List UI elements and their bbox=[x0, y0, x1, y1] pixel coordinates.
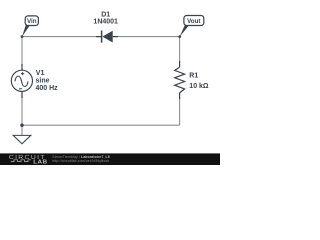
label V1 bbox=[36, 70, 45, 77]
svg-text:http://circuitlab.com/ce4945lq: http://circuitlab.com/ce4945lqfbcck bbox=[52, 159, 109, 163]
svg-text:Vin: Vin bbox=[27, 18, 37, 25]
resistor R1 bbox=[175, 61, 185, 99]
wire right vertical lower bbox=[179, 97, 181, 125]
ground bbox=[13, 135, 31, 143]
junction dot bbox=[20, 124, 23, 127]
diode D1 bbox=[96, 31, 118, 43]
wire bottom horizontal bbox=[22, 124, 180, 126]
value sine bbox=[36, 78, 50, 85]
wire right vertical upper bbox=[179, 37, 181, 63]
voltage source V1 bbox=[11, 64, 32, 98]
wire left vertical lower bbox=[21, 96, 23, 125]
svg-text:R1: R1 bbox=[189, 73, 198, 80]
value 400 Hz bbox=[36, 85, 59, 92]
svg-text:sine: sine bbox=[36, 78, 50, 85]
footer text line 2 bbox=[52, 159, 109, 163]
svg-text:1N4001: 1N4001 bbox=[93, 18, 118, 25]
value 1N4001 bbox=[93, 18, 118, 25]
svg-text:V1: V1 bbox=[36, 70, 45, 77]
footer logo CIRCUIT LAB bbox=[9, 155, 48, 166]
net flag Vout bbox=[178, 16, 203, 38]
wire top-left horizontal bbox=[22, 36, 101, 38]
footer bar bbox=[0, 153, 220, 165]
label R1 bbox=[189, 73, 198, 80]
svg-text:LAB: LAB bbox=[33, 160, 47, 165]
wire ground stub bbox=[21, 125, 23, 135]
net flag Vin bbox=[21, 16, 39, 38]
value 10 kOhm bbox=[189, 83, 209, 90]
wire left vertical upper bbox=[21, 37, 23, 66]
svg-text:10 kΩ: 10 kΩ bbox=[189, 83, 209, 90]
svg-text:D1: D1 bbox=[101, 11, 110, 18]
svg-text:400 Hz: 400 Hz bbox=[36, 85, 59, 92]
wire top-right horizontal bbox=[113, 36, 180, 38]
label D1 bbox=[101, 11, 110, 18]
svg-text:Vout: Vout bbox=[187, 18, 200, 25]
footer text line 1 bbox=[52, 155, 109, 159]
